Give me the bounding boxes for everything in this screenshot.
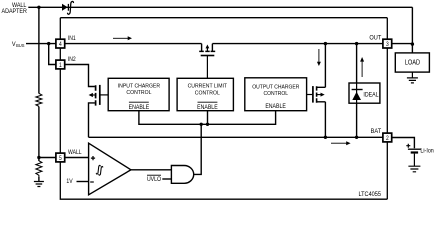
- battery BT1 (Li-Ion): [406, 144, 421, 166]
- svg-text:1V: 1V: [66, 178, 72, 185]
- pin 2 BAT: [383, 133, 392, 142]
- junction dot BAT rail / Q3: [324, 136, 327, 139]
- resistor R1: [36, 93, 42, 106]
- svg-text:1: 1: [59, 62, 62, 69]
- wire VBUS tee to pin IN2: [49, 44, 56, 65]
- junction dot load node: [411, 42, 414, 45]
- wire Q2 source down to BAT rail: [89, 103, 95, 137]
- comparator U1 (wall detect): [89, 143, 131, 195]
- current arrow on IN1 rail: [113, 36, 132, 40]
- wire 1V to comparator -: [77, 181, 89, 183]
- wire Q3 source down to BAT rail: [324, 102, 326, 138]
- svg-text:2: 2: [386, 135, 389, 142]
- wire enable bus: [139, 111, 276, 125]
- wire VBUS to pin IN1: [26, 43, 56, 45]
- wire LOAD to ground: [411, 72, 413, 78]
- node VBUS label: [12, 41, 25, 49]
- node WALL ADAPTER label: [1, 3, 27, 16]
- svg-text:UVLO: UVLO: [147, 177, 162, 184]
- wire resistor-divider vertical from wall adapter: [38, 7, 40, 181]
- svg-text:ADAPTER: ADAPTER: [1, 9, 26, 15]
- wire BAT rail: [89, 136, 383, 138]
- node UVLO label: [147, 175, 162, 183]
- wire-break squiggle after D1: [68, 1, 74, 14]
- transistor Q2 (input charger MOSFET, vertical, gate right): [89, 85, 109, 106]
- transistor Q1 (input power MOSFET, horizontal): [199, 44, 215, 79]
- wire comparator output to AND: [131, 169, 172, 171]
- svg-text:CURRENT LIMIT: CURRENT LIMIT: [188, 83, 228, 89]
- ideal diode block D2: [349, 83, 380, 103]
- wire UVLO to AND: [162, 178, 171, 180]
- ground (LOAD): [407, 78, 418, 83]
- svg-text:LOAD: LOAD: [405, 59, 421, 67]
- block INPUT CHARGER CONTROL: [108, 78, 169, 111]
- svg-text:CONTROL: CONTROL: [264, 91, 289, 97]
- svg-text:4: 4: [59, 42, 62, 49]
- svg-text:CONTROL: CONTROL: [195, 90, 220, 96]
- block LOAD: [395, 53, 429, 72]
- svg-text:OUT: OUT: [369, 35, 381, 41]
- junction dot OUT rail / ideal diode: [355, 42, 358, 45]
- resistor R2: [36, 161, 42, 177]
- junction dot enable bus / current-limit stub: [206, 123, 209, 126]
- pin 1 IN2: [56, 60, 65, 69]
- junction dot enable bus / AND output: [200, 123, 203, 126]
- current arrow down (OUT to Q3): [317, 49, 321, 66]
- wire WALL pin to comparator +: [65, 157, 89, 159]
- svg-text:IN1: IN1: [68, 36, 76, 43]
- junction dot OUT rail / Q3: [324, 42, 327, 45]
- svg-text:WALL: WALL: [68, 150, 82, 157]
- pin 3 OUT: [383, 39, 392, 48]
- svg-text:ENABLE: ENABLE: [265, 103, 286, 110]
- svg-text:INPUT CHARGER: INPUT CHARGER: [118, 83, 160, 89]
- svg-text:Li-Ion: Li-Ion: [420, 148, 433, 154]
- junction dot wall-adapter/divider tap: [37, 6, 40, 9]
- wire ideal diode top to OUT rail: [356, 44, 358, 83]
- junction dot BAT rail / ideal diode: [355, 136, 358, 139]
- svg-text:IN2: IN2: [68, 57, 76, 64]
- wire ideal diode bottom to BAT rail: [356, 103, 358, 137]
- AND gate U2: [171, 166, 193, 184]
- wire BAT pin to battery: [392, 138, 415, 149]
- junction dot VBUS/IN2 tee: [47, 42, 50, 45]
- diode D1 (wall adapter): [62, 4, 68, 11]
- svg-text:CONTROL: CONTROL: [126, 90, 151, 96]
- svg-text:OUTPUT CHARGER: OUTPUT CHARGER: [252, 84, 299, 90]
- pin 5 WALL: [56, 153, 65, 162]
- wire AND output to enable bus: [194, 124, 202, 174]
- chip outline LTC4055: [60, 18, 387, 200]
- svg-text:LTC4055: LTC4055: [358, 192, 381, 198]
- wire wall-adapter top rail: [28, 7, 412, 44]
- pin 4 IN1: [56, 39, 65, 48]
- ground (battery): [408, 166, 420, 172]
- wire IN2 to Q2: [65, 65, 95, 87]
- ground (divider): [34, 182, 44, 187]
- wire IN1 rail (internal): [65, 43, 383, 45]
- svg-text:ENABLE: ENABLE: [129, 104, 150, 111]
- svg-text:ENABLE: ENABLE: [197, 104, 218, 111]
- wire OUT pin to load node: [392, 43, 413, 45]
- svg-text:BAT: BAT: [371, 129, 382, 135]
- svg-text:IDEAL: IDEAL: [363, 92, 379, 99]
- wire Q3 drain up to OUT rail: [324, 44, 326, 88]
- svg-text:BUS: BUS: [16, 43, 24, 48]
- wire load node down to LOAD: [411, 44, 413, 53]
- svg-text:5: 5: [59, 155, 62, 162]
- current arrow up (ideal diode): [360, 57, 364, 77]
- svg-text:3: 3: [386, 42, 389, 49]
- transistor Q3 (output charger MOSFET, vertical, gate left): [307, 86, 326, 103]
- wire divider tap to WALL pin: [39, 157, 56, 159]
- current arrow on BAT rail: [331, 141, 351, 145]
- block OUTPUT CHARGER CONTROL: [245, 78, 307, 111]
- junction dot divider/WALL pin tap: [37, 156, 40, 159]
- block CURRENT LIMIT CONTROL: [177, 78, 233, 111]
